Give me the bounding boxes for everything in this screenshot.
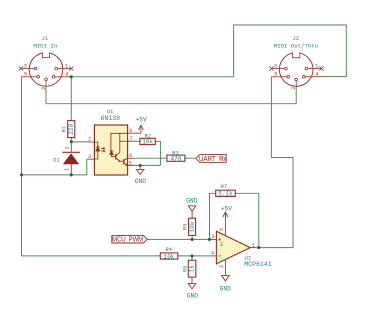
no-connect X J1 pin3 <box>19 66 23 70</box>
svg-text:3: 3 <box>274 62 277 69</box>
svg-text:5.1k: 5.1k <box>218 191 233 198</box>
J1 name labels <box>33 35 57 50</box>
wire R5 bottom <box>191 235 193 239</box>
junction R7 node <box>208 238 211 241</box>
U2 power pin numbers <box>218 228 225 268</box>
svg-text:V-: V- <box>221 257 225 262</box>
svg-text:220: 220 <box>68 123 75 134</box>
svg-text:J1: J1 <box>42 35 49 42</box>
svg-text:6N138: 6N138 <box>101 115 121 122</box>
svg-text:MIDI In: MIDI In <box>33 42 57 49</box>
svg-text:2: 2 <box>88 136 91 143</box>
U2 pin numbers <box>211 233 256 257</box>
transistor Q2 <box>123 159 125 165</box>
svg-text:470: 470 <box>170 156 181 163</box>
junction U2 output node <box>257 246 260 249</box>
wire J1 pin2 to J2 pin2 shield <box>46 87 296 104</box>
wire U1 pin6 to R3 <box>135 157 167 159</box>
wire R6 top <box>191 256 193 260</box>
svg-text:10k: 10k <box>189 221 196 232</box>
no-connect X J1 pin1 <box>69 66 73 70</box>
net label MCU_PWM <box>112 236 147 244</box>
GND symbol at U2 <box>222 275 230 281</box>
resistor R5 <box>189 218 196 235</box>
diode D1 <box>62 142 80 175</box>
svg-text:1k: 1k <box>189 265 196 273</box>
J2 pin numbers <box>274 62 320 89</box>
junction R5 node <box>191 238 194 241</box>
junction R1/D1/U1pin2 node <box>70 140 73 143</box>
svg-text:R4: R4 <box>166 247 172 253</box>
J1 pin numbers <box>24 62 70 89</box>
GND symbol at U1 pin5 <box>136 165 144 174</box>
resistor R3 <box>167 155 185 161</box>
svg-text:10k: 10k <box>142 138 153 145</box>
U2 pin stubs <box>210 216 256 276</box>
wire U1 pin7 to R2 <box>135 140 140 142</box>
J2 name labels <box>274 35 318 50</box>
svg-text:D1: D1 <box>53 158 59 164</box>
svg-text:6: 6 <box>129 152 132 159</box>
U1 pin numbers <box>88 127 133 167</box>
svg-text:V+: V+ <box>221 241 225 247</box>
wire MCU_PWM to U2 pin3 <box>147 238 210 240</box>
no-connect X J2 pin3 <box>269 66 273 70</box>
resistor R1 <box>68 121 75 138</box>
svg-text:5: 5 <box>129 160 132 167</box>
svg-text:GND: GND <box>135 178 147 185</box>
vcc rail <box>119 133 121 152</box>
junction U1 pin5 gnd node <box>139 164 142 167</box>
svg-text:R1: R1 <box>62 126 68 132</box>
wire J1 pin4 to J2 pin4 upper loop <box>71 25 346 77</box>
+5V symbol at U2 <box>223 212 228 217</box>
svg-text:5: 5 <box>24 70 27 77</box>
wire R2 right down to gnd line <box>155 141 160 165</box>
svg-text:J2: J2 <box>292 35 299 42</box>
wire R4 to U2 pin4 <box>178 255 211 257</box>
svg-text:3: 3 <box>88 153 91 160</box>
svg-text:R5: R5 <box>182 224 188 230</box>
connector J2 MIDI Out/Thru <box>279 53 313 87</box>
internal led <box>94 142 97 147</box>
svg-text:4: 4 <box>65 70 69 77</box>
svg-text:MCU_PWM: MCU_PWM <box>112 236 144 244</box>
svg-text:2: 2 <box>290 87 297 90</box>
junction R6 node <box>190 254 193 257</box>
resistor R4 <box>160 253 178 259</box>
svg-text:2: 2 <box>63 146 70 149</box>
connector J1 MIDI In <box>29 53 63 87</box>
op-amp U2 MCP6141 <box>216 231 250 264</box>
U1 labels <box>101 108 121 122</box>
wire feedback up from output <box>235 193 258 247</box>
wire U1 pin5 gnd line <box>135 164 161 166</box>
wire J1 pin5 left vertical <box>21 77 23 256</box>
pin7 internal <box>120 140 128 142</box>
svg-text:2: 2 <box>40 87 47 90</box>
U2 labels <box>244 255 271 269</box>
wire J1 pin4 to R1 top <box>70 77 72 121</box>
svg-text:+5V: +5V <box>136 116 148 123</box>
svg-text:GND: GND <box>220 286 232 293</box>
+5V symbol at U1 <box>139 125 144 133</box>
GND symbol above R5 <box>188 206 196 218</box>
photodiode <box>110 150 114 152</box>
svg-text:MIDI Out/Thru: MIDI Out/Thru <box>274 42 318 49</box>
D1 pin numbers <box>63 146 70 171</box>
svg-text:2: 2 <box>218 265 225 268</box>
wire J2 pin5 to output net <box>256 77 293 248</box>
wire R1 bottom to node <box>70 138 72 142</box>
svg-text:5: 5 <box>218 228 225 231</box>
U2 input polarity marks <box>218 238 221 256</box>
emission arrows <box>101 148 105 150</box>
svg-text:7: 7 <box>129 135 132 142</box>
svg-text:3: 3 <box>24 62 27 69</box>
wire R7 left to +input <box>210 193 216 239</box>
svg-text:3: 3 <box>212 233 215 240</box>
resistor R2 <box>140 138 155 144</box>
svg-text:R6: R6 <box>182 265 188 271</box>
svg-text:10k: 10k <box>164 253 175 260</box>
U1 pin stubs <box>87 133 141 165</box>
transistor Q1 <box>115 154 117 160</box>
svg-text:8: 8 <box>129 127 132 134</box>
svg-text:GND: GND <box>187 293 199 300</box>
no-connect X J2 pin1 <box>319 66 323 70</box>
svg-text:R7: R7 <box>221 184 227 190</box>
svg-text:5: 5 <box>274 70 277 77</box>
wire bottom horizontal to R4 <box>22 255 161 257</box>
svg-text:GND: GND <box>186 198 198 205</box>
opto-coupler U1 6N138 <box>94 125 127 175</box>
resistor R6 <box>188 260 196 277</box>
junction left rail node <box>20 173 23 176</box>
wire node to U1 pin2 <box>71 141 87 143</box>
svg-text:1: 1 <box>63 167 70 171</box>
svg-text:UART_Rx: UART_Rx <box>199 156 227 164</box>
resistor R7 <box>216 190 236 196</box>
wire mid horizontal to D1/U1 pin3 <box>22 159 87 175</box>
net label UART_Rx <box>196 155 227 163</box>
svg-text:MCP6141: MCP6141 <box>244 261 271 268</box>
wire R3 to UART_Rx tag <box>185 157 196 159</box>
svg-text:+5V: +5V <box>221 205 233 212</box>
junction J1 pin4 node <box>70 75 73 78</box>
junction D1 anode node <box>70 173 73 176</box>
GND symbol below R6 <box>188 277 196 289</box>
